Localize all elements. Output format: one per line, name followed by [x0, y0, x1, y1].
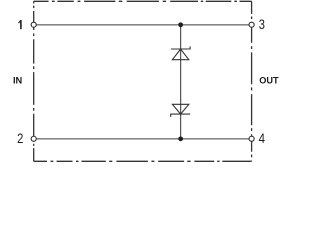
wire middle vertical branch	[180, 25, 182, 139]
enclosure dash-dot border left	[33, 1, 35, 161]
svg-text:4: 4	[259, 131, 266, 146]
node junction bottom	[178, 136, 183, 141]
terminal 3	[249, 22, 254, 27]
terminal 2	[31, 136, 36, 141]
svg-text:OUT: OUT	[259, 76, 279, 87]
wire bottom: terminal 2 to terminal 4	[34, 138, 252, 140]
diode D2 (zener, cathode down)	[171, 104, 191, 117]
enclosure dash-dot border top	[34, 0, 252, 2]
pin label 1	[19, 20, 21, 29]
node junction top	[178, 22, 183, 27]
svg-text:2: 2	[17, 131, 23, 146]
enclosure dash-dot border bottom	[34, 160, 252, 162]
wire top: terminal 1 to terminal 3	[34, 24, 252, 26]
terminal 1	[31, 22, 36, 27]
terminal 4	[249, 136, 254, 141]
svg-text:3: 3	[259, 17, 265, 32]
svg-text:IN: IN	[13, 76, 22, 87]
enclosure dash-dot border right	[251, 1, 253, 161]
diode D1 (zener, cathode up)	[171, 46, 190, 59]
